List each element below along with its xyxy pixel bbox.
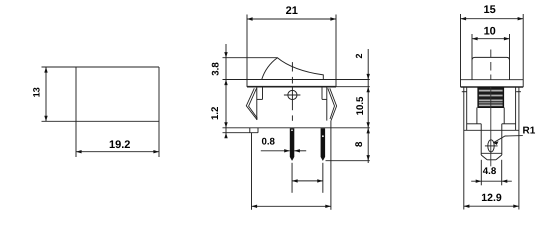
svg-text:R1: R1 [523, 126, 536, 137]
svg-text:21: 21 [286, 5, 298, 17]
svg-text:4.8: 4.8 [483, 166, 497, 177]
svg-text:0.8: 0.8 [261, 137, 275, 148]
svg-text:2: 2 [354, 53, 364, 58]
svg-text:12.9: 12.9 [481, 192, 502, 204]
svg-text:1.2: 1.2 [210, 107, 221, 120]
svg-text:10.5: 10.5 [355, 96, 366, 115]
svg-text:15: 15 [483, 4, 495, 16]
svg-text:13: 13 [32, 87, 42, 97]
svg-text:8: 8 [354, 141, 365, 147]
svg-text:19.2: 19.2 [109, 139, 130, 151]
svg-text:10: 10 [484, 26, 496, 38]
svg-text:3.8: 3.8 [211, 62, 222, 76]
